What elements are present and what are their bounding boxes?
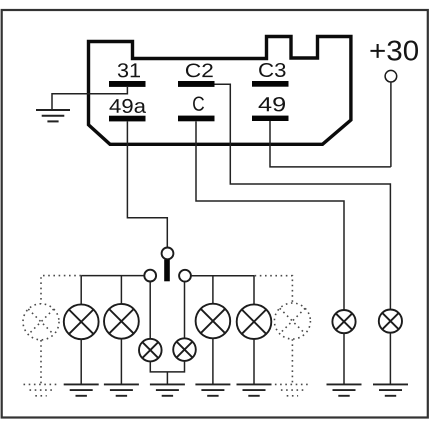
wire: drop to lamp L1 bbox=[80, 276, 82, 305]
+30 terminal circle bbox=[385, 70, 397, 82]
wire: C2 to right pilot lamp bbox=[215, 84, 391, 309]
lamp L2 bbox=[104, 304, 139, 339]
terminal C2 label bbox=[186, 64, 213, 78]
dotted wire: bus to optional left lamp bbox=[41, 276, 81, 304]
wire: +30 terminal down bbox=[390, 82, 392, 167]
switch pivot circle bbox=[162, 248, 174, 260]
lamp L1 bbox=[64, 304, 99, 339]
ground symbol under P2 bbox=[373, 384, 408, 395]
ground symbol under L2 bbox=[104, 384, 139, 395]
wire: P2 to ground bbox=[389, 333, 391, 385]
wire: drop to lamp L3 bbox=[212, 276, 214, 304]
ground symbol under small lamps bbox=[150, 384, 185, 395]
dotted ground under D2 bbox=[275, 384, 310, 395]
wire: C to left pilot lamp bbox=[196, 121, 344, 310]
small lamp S1 bbox=[139, 339, 162, 362]
ground symbol under L1 bbox=[64, 384, 99, 395]
dotted wire: D2 to ground bbox=[291, 339, 293, 384]
wire: 49a to switch pivot bbox=[127, 122, 167, 248]
terminal 31 pin bar bbox=[109, 81, 146, 87]
dotted ground under D1 bbox=[24, 384, 59, 395]
terminal 31 label bbox=[118, 63, 140, 77]
dotted wire: D1 to ground bbox=[40, 340, 42, 384]
optional lamp D1 (dotted) bbox=[23, 304, 59, 340]
terminal 49 pin bar bbox=[252, 116, 289, 121]
terminal C3 pin bar bbox=[252, 81, 289, 87]
+30 label bbox=[370, 41, 418, 61]
wire: P1 to ground bbox=[343, 333, 345, 384]
switch right contact bbox=[179, 270, 191, 282]
pilot lamp P1 bbox=[332, 310, 355, 333]
wire: drop to lamp L4 bbox=[253, 276, 255, 305]
wire: left contact down to small lamp bbox=[149, 282, 151, 340]
small lamp S2 bbox=[173, 338, 196, 361]
wire: 49 to +30 feed bbox=[270, 121, 391, 167]
lamp L4 bbox=[237, 304, 272, 339]
terminal C3 label bbox=[259, 63, 285, 77]
wire: left lamp bus bbox=[81, 275, 144, 277]
ground symbol under L4 bbox=[237, 384, 272, 395]
wire: 31 to chassis ground bbox=[52, 87, 127, 110]
terminal C pin bar bbox=[178, 116, 215, 122]
wire: L4 to ground bbox=[253, 339, 255, 384]
wire: small lamps common to ground bbox=[150, 361, 184, 384]
optional lamp D2 (dotted) bbox=[274, 303, 310, 339]
dotted wire: bus to optional right lamp bbox=[255, 276, 293, 303]
switch left contact bbox=[144, 270, 156, 282]
pilot lamp P2 bbox=[379, 310, 402, 333]
ground symbol under P1 bbox=[327, 384, 362, 395]
ground symbol (terminal 31) bbox=[36, 110, 70, 121]
terminal 49a pin bar bbox=[109, 116, 146, 122]
wire: L1 to ground bbox=[80, 339, 82, 384]
wire: L2 to ground bbox=[120, 339, 122, 385]
wire: L3 to ground bbox=[212, 338, 214, 384]
wire: right contact down to small lamp bbox=[184, 282, 186, 339]
terminal 49a label bbox=[110, 99, 146, 113]
relay connector body outline bbox=[89, 37, 351, 145]
wire: drop to lamp L2 bbox=[120, 276, 122, 305]
terminal C2 pin bar bbox=[178, 81, 215, 87]
terminal C label bbox=[193, 97, 204, 111]
wire: right lamp bus bbox=[191, 275, 255, 277]
ground symbol under L3 bbox=[195, 384, 230, 395]
lamp L3 bbox=[196, 304, 231, 339]
switch lever (black bar) bbox=[164, 260, 170, 282]
terminal 49 label bbox=[259, 97, 285, 111]
